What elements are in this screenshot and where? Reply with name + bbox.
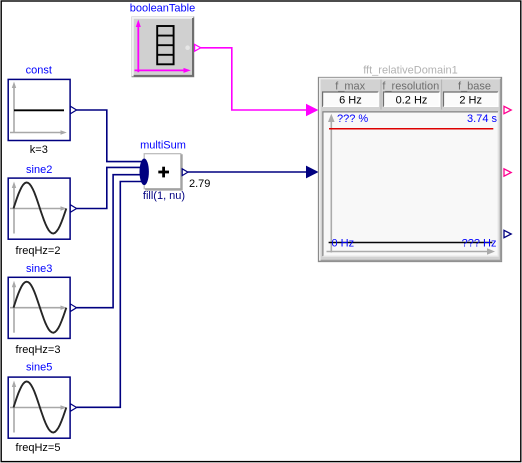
- svg-text:freqHz=3: freqHz=3: [16, 344, 61, 356]
- svg-text:2.79: 2.79: [189, 178, 210, 190]
- svg-text:fft_relativeDomain1: fft_relativeDomain1: [363, 64, 458, 76]
- svg-text:booleanTable: booleanTable: [130, 3, 195, 15]
- svg-text:multiSum: multiSum: [140, 139, 186, 151]
- svg-text:const: const: [26, 65, 52, 77]
- svg-text:f_resolution: f_resolution: [382, 80, 439, 92]
- svg-text:0 Hz: 0 Hz: [332, 238, 355, 250]
- svg-text:freqHz=2: freqHz=2: [16, 245, 61, 257]
- svg-text:freqHz=5: freqHz=5: [16, 442, 61, 454]
- svg-text:fill(1, nu): fill(1, nu): [143, 190, 185, 202]
- svg-text:sine2: sine2: [26, 164, 52, 176]
- svg-text:f_base: f_base: [458, 80, 491, 92]
- svg-text:??? %: ??? %: [337, 113, 368, 125]
- svg-text:f_max: f_max: [335, 80, 365, 92]
- svg-text:??? Hz: ??? Hz: [462, 238, 497, 250]
- svg-text:sine3: sine3: [26, 263, 52, 275]
- svg-text:k=3: k=3: [30, 144, 48, 156]
- svg-text:3.74 s: 3.74 s: [467, 113, 497, 125]
- svg-text:sine5: sine5: [26, 362, 52, 374]
- svg-text:2 Hz: 2 Hz: [459, 95, 482, 107]
- svg-text:6 Hz: 6 Hz: [339, 95, 362, 107]
- svg-text:0.2 Hz: 0.2 Hz: [396, 95, 428, 107]
